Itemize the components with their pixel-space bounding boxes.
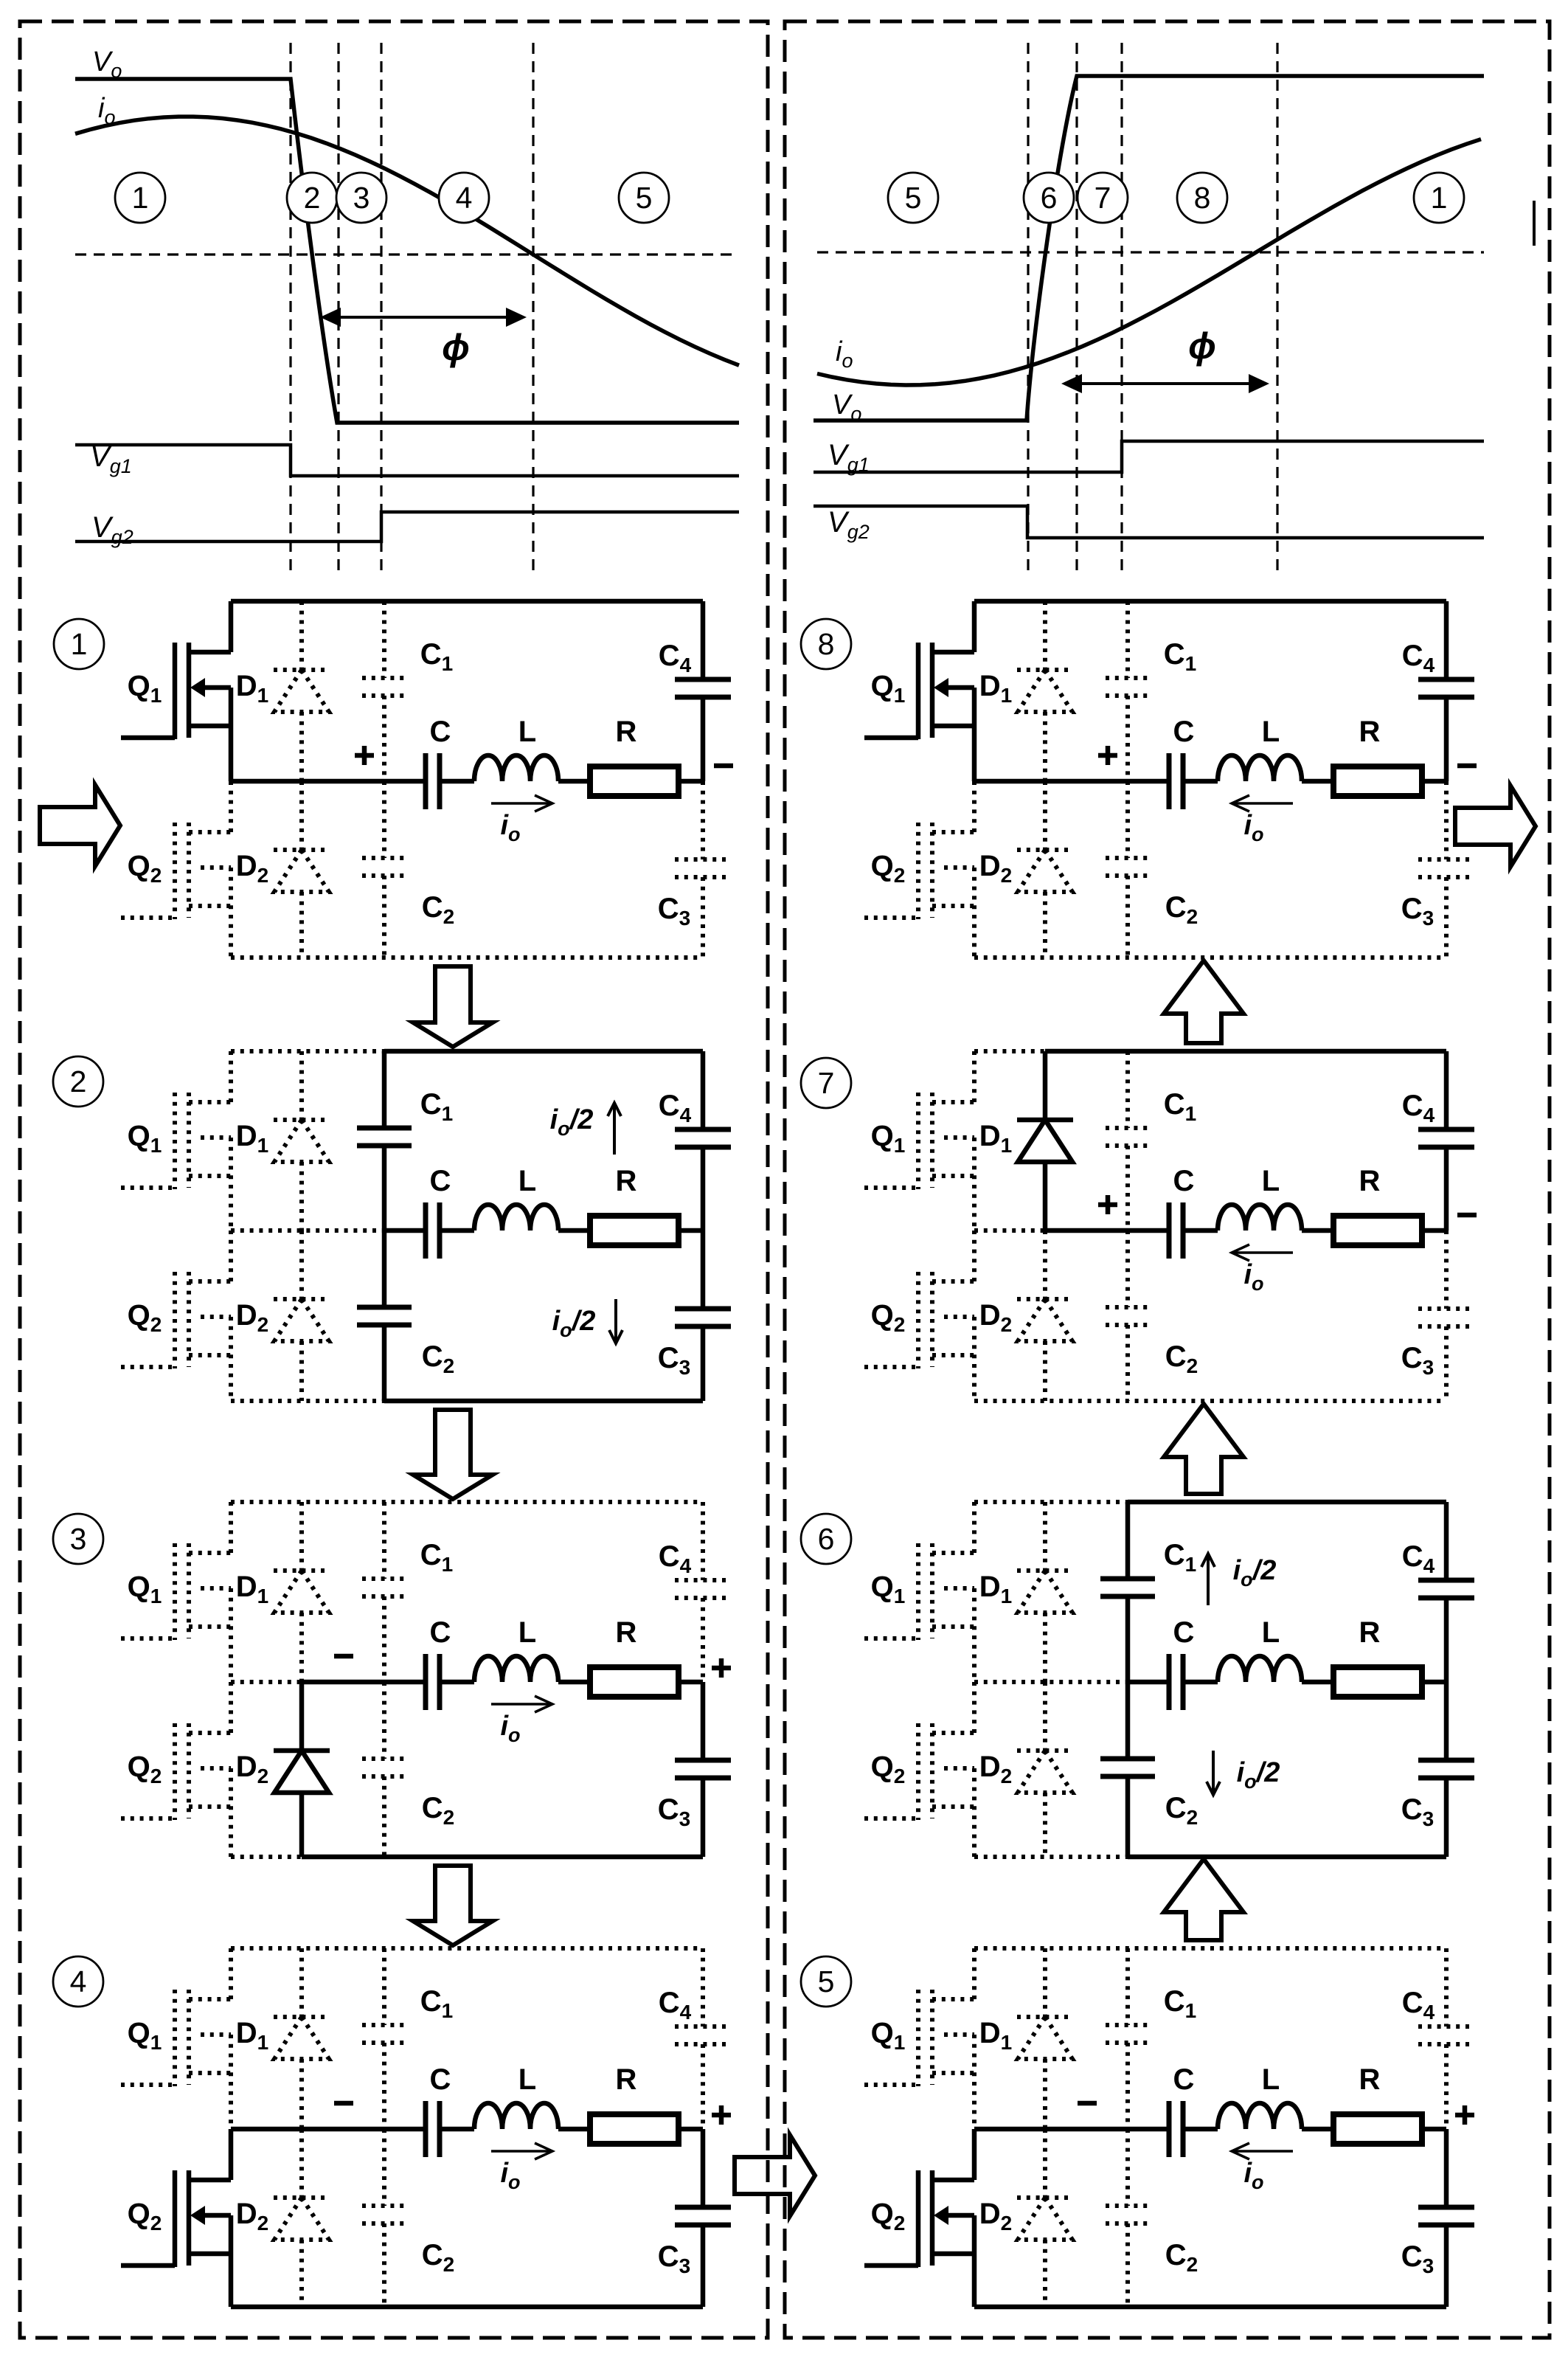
svg-text:io/2: io/2	[552, 1306, 596, 1341]
svg-text:7: 7	[1095, 181, 1111, 215]
svg-text:4: 4	[456, 181, 473, 215]
svg-text:4: 4	[70, 1965, 87, 1998]
svg-text:L: L	[518, 1165, 536, 1197]
svg-text:5: 5	[636, 181, 653, 215]
svg-text:1: 1	[71, 627, 88, 661]
svg-text:R: R	[616, 1616, 637, 1649]
svg-text:io/2: io/2	[1233, 1555, 1277, 1591]
svg-text:C: C	[1173, 2063, 1195, 2096]
svg-text:R: R	[616, 716, 637, 748]
svg-text:2: 2	[70, 1065, 87, 1098]
svg-text:L: L	[518, 716, 536, 748]
svg-text:R: R	[1359, 1165, 1381, 1197]
svg-text:3: 3	[353, 181, 370, 215]
svg-text:io/2: io/2	[1237, 1757, 1280, 1793]
svg-text:C: C	[430, 716, 451, 748]
svg-text:ϕ: ϕ	[1188, 325, 1216, 367]
svg-text:R: R	[1359, 1616, 1381, 1649]
svg-text:6: 6	[1041, 181, 1058, 215]
svg-text:L: L	[1262, 2063, 1280, 2096]
svg-text:ϕ: ϕ	[442, 327, 470, 368]
svg-text:C: C	[430, 1165, 451, 1197]
svg-text:C: C	[430, 1616, 451, 1649]
svg-text:io/2: io/2	[550, 1104, 594, 1140]
svg-text:R: R	[616, 1165, 637, 1197]
svg-text:2: 2	[304, 181, 321, 215]
svg-text:8: 8	[1194, 181, 1211, 215]
svg-text:L: L	[1262, 1165, 1280, 1197]
svg-text:R: R	[1359, 716, 1381, 748]
svg-text:L: L	[1262, 1616, 1280, 1649]
svg-text:5: 5	[905, 181, 922, 215]
svg-text:R: R	[1359, 2063, 1381, 2096]
svg-text:1: 1	[1431, 181, 1448, 215]
svg-text:C: C	[430, 2063, 451, 2096]
svg-text:L: L	[518, 2063, 536, 2096]
svg-text:C: C	[1173, 1165, 1195, 1197]
svg-text:L: L	[518, 1616, 536, 1649]
svg-text:5: 5	[818, 1965, 835, 1998]
svg-text:6: 6	[818, 1522, 835, 1556]
svg-text:1: 1	[132, 181, 149, 215]
svg-text:7: 7	[818, 1066, 835, 1100]
svg-text:8: 8	[818, 627, 835, 661]
svg-text:3: 3	[70, 1522, 87, 1556]
svg-text:C: C	[1173, 1616, 1195, 1649]
svg-text:C: C	[1173, 716, 1195, 748]
svg-text:R: R	[616, 2063, 637, 2096]
svg-text:L: L	[1262, 716, 1280, 748]
